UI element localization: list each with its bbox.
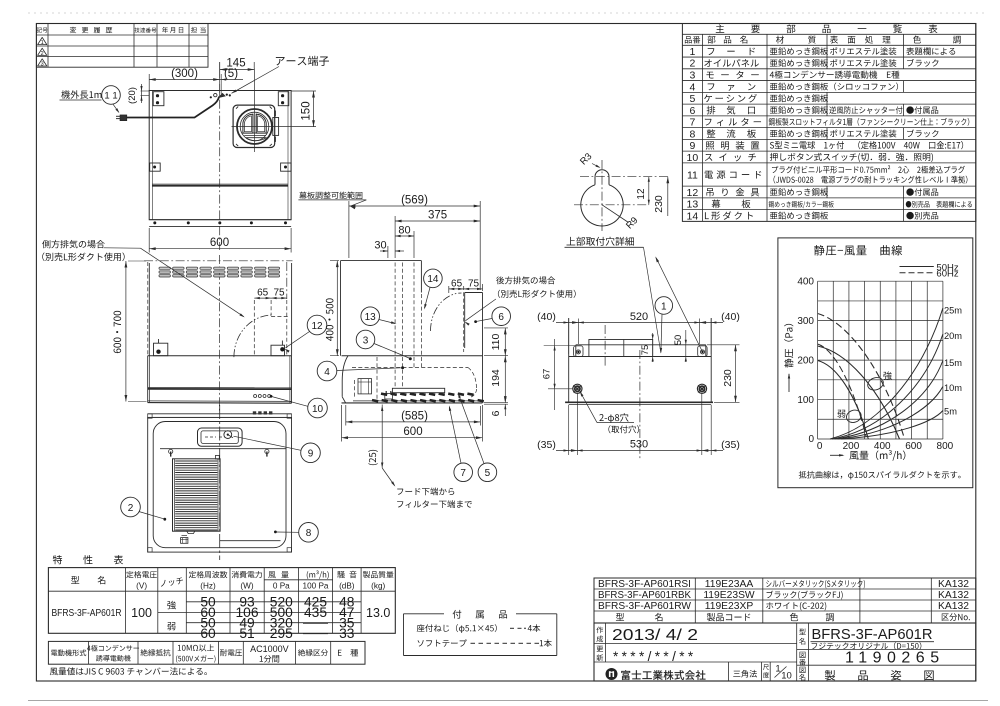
dim 600 side (341, 405, 343, 442)
mount hole right (697, 384, 706, 393)
side duct dashed elbow arc (234, 315, 273, 357)
bottom view panel split line (160, 448, 286, 450)
title block label model (799, 628, 806, 634)
duct center divider (252, 114, 254, 134)
side view hood rear edge (482, 293, 484, 403)
side bracket screw detail (385, 394, 393, 400)
svg-text:7: 7 (689, 117, 695, 129)
svg-text:6: 6 (490, 410, 502, 416)
switch panel outer (198, 428, 243, 446)
svg-text:KA132: KA132 (938, 590, 969, 601)
side duct dashed lines (253, 300, 255, 357)
dim 145 (219, 62, 221, 78)
svg-text:BFRS-3F-AP601RBK: BFRS-3F-AP601RBK (598, 590, 691, 601)
filter thick dashes row1 (381, 394, 387, 395)
mount view centerline (639, 350, 641, 460)
svg-text:(40): (40) (721, 311, 740, 323)
svg-text:300: 300 (797, 316, 814, 327)
label strong operating point (883, 371, 891, 379)
svg-text:295: 295 (270, 626, 293, 641)
rear view centerline (219, 84, 221, 250)
fan curve strong 60Hz dashed (818, 314, 905, 440)
dim (25) hood to filter (381, 405, 383, 469)
svg-text:11: 11 (687, 169, 698, 181)
projection method cell (733, 670, 757, 678)
svg-text:119E23SW: 119E23SW (703, 590, 755, 601)
svg-text:60Hz: 60Hz (936, 269, 958, 280)
scale label (763, 664, 769, 670)
dim 600-700 height (128, 260, 146, 262)
title block model subtitle (812, 642, 922, 649)
svg-text:75: 75 (273, 288, 285, 299)
rear view panel joint line (153, 183, 289, 185)
title block label updated (597, 646, 604, 652)
svg-text:119E23XP: 119E23XP (705, 601, 754, 612)
title block label created (596, 627, 603, 634)
mount duct centerline (604, 325, 606, 366)
parts table frame (682, 24, 975, 222)
dim 230 mount (707, 344, 740, 346)
svg-text:BFRS-3F-AP601R: BFRS-3F-AP601R (812, 627, 933, 643)
filter thick dashes row2 (372, 400, 378, 401)
company logo mark (606, 668, 618, 680)
rear view body outline (149, 91, 291, 220)
front view left edge (148, 263, 150, 356)
balloon 6 exhaust outlet (492, 307, 511, 326)
dim (40) 520 (40) line (568, 319, 570, 355)
svg-text:75: 75 (640, 345, 651, 356)
svg-text:(5): (5) (224, 68, 238, 80)
parts table finish cells (830, 47, 896, 55)
dim 6 (484, 402, 508, 404)
svg-text:600: 600 (210, 237, 229, 249)
svg-text:1 1: 1 1 (104, 91, 117, 102)
svg-text:KA132: KA132 (938, 601, 969, 612)
duct shutter flap (246, 138, 266, 141)
title block drawing name (825, 670, 835, 680)
dim 80 (413, 231, 415, 258)
company name (621, 670, 705, 680)
svg-text:100: 100 (131, 606, 152, 620)
earth terminal parts (214, 93, 217, 96)
dim 150 (291, 90, 316, 92)
svg-text:2: 2 (128, 503, 134, 514)
filter frame (173, 459, 221, 531)
filter white frame side (392, 388, 444, 392)
side view hood front profile (342, 356, 348, 397)
parts table column lines (702, 34, 704, 221)
balloon 2 oil panel (121, 497, 141, 517)
switch panel dashes (205, 436, 216, 438)
fan curve strong 50Hz (818, 346, 900, 439)
power cord (127, 97, 219, 118)
mount view body top (569, 356, 712, 358)
dim 375 (394, 216, 396, 258)
svg-text:BFRS-3F-AP601R: BFRS-3F-AP601R (52, 608, 122, 619)
panel keyhole screw left (169, 449, 173, 453)
duct shutter chords (243, 132, 266, 134)
svg-text:(569): (569) (401, 195, 428, 207)
hood hanger bracket left (154, 343, 168, 356)
svg-text:(W): (W) (240, 582, 253, 591)
detail reference arrow (656, 258, 703, 352)
svg-text:2: 2 (689, 58, 695, 70)
louver slots (159, 267, 171, 270)
revision mark triangle 1 (38, 37, 47, 44)
svg-text:13: 13 (687, 199, 699, 211)
svg-text:67: 67 (542, 369, 553, 380)
dim 12 detail (648, 177, 650, 205)
svg-text:3: 3 (363, 335, 369, 346)
svg-text:(35): (35) (537, 439, 556, 451)
svg-text:530: 530 (630, 439, 648, 451)
dim 600 rear view (148, 228, 150, 253)
svg-text:20m: 20m (944, 331, 962, 341)
svg-text:80: 80 (398, 225, 410, 237)
revision table headers (37, 28, 48, 33)
svg-text:(20): (20) (127, 87, 138, 104)
dim 65 75 side (448, 286, 450, 293)
keyhole detail neck (594, 177, 596, 185)
svg-text:(dB): (dB) (339, 582, 355, 591)
svg-text:AC1000V: AC1000V (250, 644, 289, 654)
svg-text:0: 0 (817, 441, 823, 452)
duct cover dashed verticals (394, 263, 396, 389)
svg-text:600: 600 (905, 441, 922, 452)
phi8 leader (581, 393, 598, 423)
dim 110 (484, 327, 508, 329)
svg-text:33: 33 (339, 626, 355, 641)
label cord length 1m (61, 90, 101, 99)
balloon 9 switch panel (301, 443, 321, 463)
svg-text:8: 8 (306, 528, 312, 539)
panel keyhole screw right (265, 449, 269, 453)
side-exhaust label leader (104, 247, 141, 249)
rear view mid-right bracket (281, 163, 292, 171)
side view hood bottom (342, 402, 483, 404)
svg-text:100: 100 (797, 395, 814, 406)
svg-text:400: 400 (874, 441, 891, 452)
dim 75 mount (652, 333, 654, 362)
svg-text:520: 520 (630, 311, 648, 323)
dim (20) (141, 90, 150, 92)
svg-text:75: 75 (468, 278, 480, 289)
svg-text:3: 3 (689, 70, 695, 82)
parts table headers (685, 36, 700, 43)
balloon 3 motor (356, 330, 375, 349)
side lamp housing detail (358, 379, 372, 394)
balloon 1 hood (655, 297, 673, 315)
svg-text:230: 230 (653, 195, 665, 213)
duct adapter side tab (273, 118, 279, 136)
mount hole left (573, 384, 582, 393)
rear view bottom band (149, 219, 291, 221)
balloon 5 casing (478, 463, 497, 482)
svg-text:0 Pa: 0 Pa (273, 582, 290, 591)
svg-text:5: 5 (485, 468, 491, 479)
hood top edge front (148, 355, 292, 357)
dim (585) (345, 405, 347, 426)
revision mark triangle 3 (38, 59, 47, 66)
balloon 13 duct cover (361, 307, 380, 326)
keyhole detail centerlines (580, 176, 670, 178)
balloon 14 L-duct (424, 269, 443, 288)
side view top box (341, 260, 422, 262)
side view inner dashed cavity (352, 367, 468, 369)
svg-text:10: 10 (687, 152, 699, 164)
svg-text:65: 65 (451, 278, 463, 289)
chart outer box (778, 238, 973, 488)
svg-text:15m: 15m (944, 358, 962, 368)
revision mark triangle 2 (38, 48, 47, 55)
paper edge top (28, 12, 988, 14)
front view centerline (218, 255, 220, 412)
hood hanger bracket right (271, 345, 285, 356)
hood bottom lines (148, 400, 292, 403)
duct collar outer circle (237, 109, 272, 144)
balloon 7 filter (454, 463, 473, 482)
svg-text:1: 1 (689, 46, 695, 58)
front view right chain line (286, 262, 288, 299)
svg-text:12: 12 (636, 188, 647, 200)
svg-text:5m: 5m (944, 407, 957, 417)
svg-text:6: 6 (498, 312, 504, 323)
bottom view oil panel edge line (220, 540, 281, 542)
chart note (799, 471, 961, 480)
svg-text:25m: 25m (944, 306, 962, 316)
title block frame (594, 623, 976, 681)
svg-text:9: 9 (689, 140, 695, 152)
svg-text:14: 14 (687, 210, 699, 222)
duct inner right window (256, 114, 266, 133)
svg-text:14: 14 (427, 274, 439, 285)
mount rail (576, 344, 706, 346)
keyhole detail big circle R9 (581, 185, 623, 226)
chart legend 50Hz (900, 266, 934, 268)
balloon 8 bottom panel (299, 523, 319, 543)
rear view dim extension verticals (148, 74, 150, 91)
svg-text:5: 5 (689, 93, 695, 105)
title block label drawing name (800, 667, 806, 673)
motor spec row (48, 641, 365, 664)
rear view bottom screws (153, 221, 156, 224)
label 2-phi8 holes (599, 413, 628, 423)
svg-text:(585): (585) (401, 410, 428, 422)
parts table title (716, 24, 724, 32)
svg-text:435: 435 (304, 605, 327, 620)
characteristics table header lines (48, 590, 395, 592)
fan curve weak 60Hz dashed (818, 344, 866, 437)
rear view top-left bracket (153, 92, 164, 106)
svg-text:BFRS-3F-AP601RW: BFRS-3F-AP601RW (598, 601, 691, 612)
airflow note (50, 667, 207, 675)
svg-text:119E23AA: 119E23AA (705, 579, 754, 590)
svg-text:13: 13 (365, 312, 377, 323)
label side exhaust case (42, 240, 105, 248)
svg-text:2013/ 4/ 2: 2013/ 4/ 2 (612, 627, 698, 644)
balloon 10 switch (308, 398, 328, 418)
dim 230 detail (667, 177, 669, 216)
dim 30 (387, 246, 389, 258)
svg-text:(Hz): (Hz) (200, 582, 216, 591)
svg-text:(kg): (kg) (371, 582, 385, 591)
chart x axis title (830, 454, 843, 456)
characteristics table frame (48, 568, 395, 634)
fan curve weak 50Hz (818, 361, 869, 440)
label side exhaust duct (42, 252, 124, 261)
chart y axis title (784, 324, 793, 368)
earth terminal label leader (232, 67, 280, 94)
accessory tape line (418, 639, 467, 646)
balloon 11 power cord (102, 86, 121, 105)
svg-text:200: 200 (797, 355, 814, 366)
svg-text:30: 30 (374, 240, 386, 252)
svg-text:150: 150 (301, 101, 313, 120)
svg-text:8: 8 (689, 128, 695, 140)
svg-text:BFRS-3F-AP601RSI: BFRS-3F-AP601RSI (598, 579, 691, 590)
label rear exhaust case (496, 276, 555, 284)
power cord plug (120, 115, 127, 121)
label mounting holes (608, 425, 639, 433)
svg-text:51: 51 (239, 626, 254, 641)
svg-text:13.0: 13.0 (366, 606, 390, 620)
parts table color cells (906, 47, 955, 55)
chart title (814, 245, 902, 255)
dim 400-500 (330, 260, 339, 262)
svg-text:100 Pa: 100 Pa (303, 582, 329, 591)
duct vertical centerline (253, 69, 255, 153)
svg-text:0: 0 (808, 434, 814, 445)
svg-text:(35): (35) (721, 439, 740, 451)
svg-text:200: 200 (843, 441, 860, 452)
duct adapter plate (233, 105, 275, 147)
revision table (36, 24, 208, 68)
rear duct stub side view (464, 293, 466, 349)
bottom view outer rect (148, 417, 292, 552)
mount duct stub rect (589, 340, 653, 357)
rear duct center dashed (463, 286, 465, 352)
bottom view centerline (219, 405, 221, 560)
label top mounting hole detail (566, 237, 633, 246)
front view wall chain line (144, 260, 293, 262)
svg-text:(V): (V) (136, 582, 147, 591)
mount rail right tab (698, 346, 707, 357)
hood mid joint dark line (148, 387, 292, 389)
svg-text:110: 110 (490, 333, 502, 350)
label hood lower edge note1 (397, 487, 454, 495)
rear exhaust label leader (466, 299, 496, 321)
bottom view corner tabs (148, 414, 152, 418)
accessories box (404, 613, 445, 615)
duct horizontal centerline (232, 126, 279, 128)
svg-text:50: 50 (673, 335, 684, 346)
svg-text:1190265: 1190265 (845, 650, 945, 667)
dim (35) 530 (35) (568, 405, 570, 455)
svg-text:2: 2 (41, 51, 44, 57)
switch key circle (224, 431, 232, 439)
label duct cover adjustable range (299, 192, 362, 199)
dim 194 (484, 355, 508, 357)
svg-text:10: 10 (312, 404, 324, 415)
mount view body sides (568, 318, 570, 403)
filter hatch (175, 460, 217, 462)
svg-text:1: 1 (661, 301, 667, 312)
rear duct elbow dashed arc (431, 293, 462, 331)
svg-text:4: 4 (324, 367, 330, 378)
dim (5) (220, 74, 222, 94)
svg-text:(300): (300) (171, 68, 198, 80)
bottom view top band (148, 413, 292, 415)
balloon 1 leader (661, 314, 662, 352)
dim 67 mount (544, 345, 575, 347)
parts table power cord cell (772, 165, 965, 173)
accessories title (453, 610, 462, 619)
duct inner left window (243, 114, 253, 133)
svg-text:800: 800 (937, 441, 954, 452)
hood band sides (147, 356, 149, 403)
mount rail left tab (574, 346, 583, 357)
accessory screws line (417, 624, 497, 633)
label hood lower edge note2 (397, 500, 472, 508)
svg-text:6: 6 (689, 105, 695, 117)
dim 65 75 front (254, 297, 286, 299)
front view right edge (291, 263, 293, 356)
model color table (594, 578, 976, 623)
svg-text:60: 60 (200, 626, 216, 641)
svg-text:1: 1 (41, 40, 44, 46)
switch buttons front (254, 395, 257, 398)
label rear exhaust duct (498, 290, 576, 298)
svg-text:10: 10 (781, 671, 792, 682)
lamp socket mark (181, 538, 188, 544)
svg-text:375: 375 (428, 210, 447, 222)
title block label drawing number (800, 652, 806, 658)
balloon 11 leader (113, 104, 119, 112)
dim 50 mount (685, 330, 687, 362)
filter bottom tab (187, 531, 195, 533)
side view hood top (342, 355, 483, 357)
svg-text:400: 400 (797, 276, 814, 287)
svg-text:3: 3 (41, 62, 44, 68)
svg-text:****/**/**: ****/**/** (613, 649, 697, 664)
dim 520 arrows (572, 321, 579, 324)
label R9 (602, 205, 629, 223)
paper edge bottom (28, 700, 988, 702)
svg-text:KA132: KA132 (938, 579, 969, 590)
svg-text:194: 194 (490, 369, 502, 387)
svg-text:65: 65 (257, 288, 269, 299)
filter top tab (216, 455, 220, 459)
balloon 4 fan (317, 361, 337, 381)
balloon 12 hanger bracket (307, 315, 327, 335)
bottom view switch buttons top (253, 411, 256, 414)
svg-text:9: 9 (308, 449, 314, 460)
characteristics table title (53, 555, 62, 564)
dim (569) (348, 201, 350, 258)
characteristics table headers (71, 576, 79, 584)
label earth terminal (276, 56, 329, 66)
hood-filter note leader (382, 468, 394, 486)
svg-text:12: 12 (311, 321, 323, 332)
svg-text:600: 600 (403, 426, 422, 438)
label weak operating point (837, 410, 845, 418)
parts table part names (708, 48, 715, 55)
svg-text:12: 12 (687, 187, 699, 199)
svg-text:4: 4 (689, 81, 695, 93)
model table header (616, 613, 624, 621)
svg-text:230: 230 (722, 369, 734, 387)
switch panel inner (201, 431, 238, 444)
